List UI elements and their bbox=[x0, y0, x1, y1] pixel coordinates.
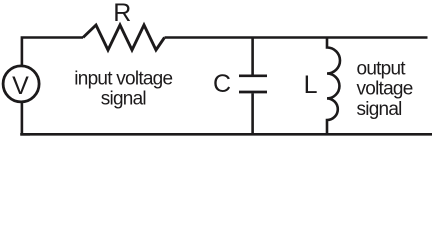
capacitor C bbox=[239, 38, 267, 135]
inductor L bbox=[327, 38, 340, 135]
svg-text:L: L bbox=[304, 71, 318, 99]
svg-text:V: V bbox=[12, 72, 29, 100]
wire: top wire from resistor to right open terminal bbox=[165, 36, 428, 39]
svg-text:output: output bbox=[357, 59, 407, 80]
svg-text:C: C bbox=[213, 70, 231, 98]
svg-text:input voltage: input voltage bbox=[74, 68, 172, 89]
wire: left vertical + top-left segment to resistor bbox=[22, 38, 83, 67]
svg-text:signal: signal bbox=[101, 88, 146, 109]
svg-text:R: R bbox=[113, 0, 131, 27]
resistor R bbox=[83, 25, 165, 50]
annotation: output voltage signal bbox=[357, 59, 413, 120]
annotation: input voltage signal bbox=[74, 68, 172, 109]
wire: V source bottom lead + bottom-left corner bbox=[22, 102, 30, 134]
wire: bottom wire to right edge bbox=[20, 133, 432, 136]
svg-text:voltage: voltage bbox=[357, 79, 413, 100]
voltage source V bbox=[3, 66, 39, 102]
svg-text:signal: signal bbox=[357, 99, 402, 120]
